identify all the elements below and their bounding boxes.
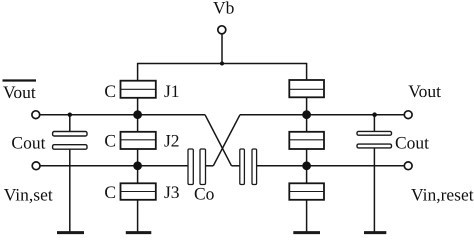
svg-text:Cout: Cout <box>395 132 429 152</box>
svg-text:Vout: Vout <box>3 82 36 102</box>
svg-text:Vin,reset: Vin,reset <box>411 184 474 204</box>
svg-text:Vout: Vout <box>408 81 441 101</box>
svg-text:Vin,set: Vin,set <box>4 185 53 205</box>
svg-text:C: C <box>104 130 116 150</box>
svg-text:Vb: Vb <box>213 0 235 18</box>
svg-text:J2: J2 <box>164 130 180 150</box>
svg-text:Cout: Cout <box>11 132 45 152</box>
svg-text:Co: Co <box>194 184 215 204</box>
svg-text:C: C <box>104 182 116 202</box>
svg-text:J1: J1 <box>164 81 180 101</box>
svg-text:C: C <box>104 81 116 101</box>
svg-text:J3: J3 <box>164 182 180 202</box>
